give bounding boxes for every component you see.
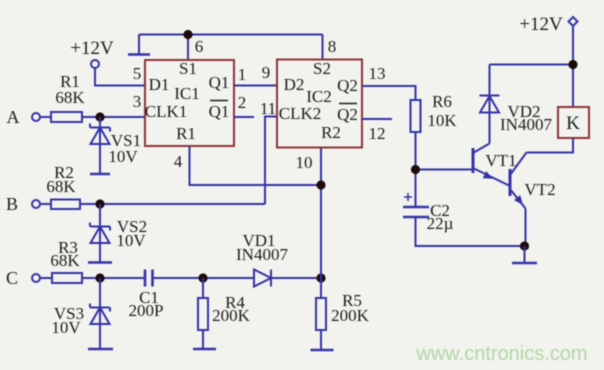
- svg-text:6: 6: [195, 37, 204, 56]
- svg-text:D1: D1: [149, 75, 170, 94]
- svg-text:B: B: [6, 194, 18, 214]
- IC U2 (IC2): [277, 59, 362, 148]
- svg-text:VT1: VT1: [485, 151, 516, 170]
- wire K bottom to VT2 collector: [527, 138, 574, 153]
- svg-text:200K: 200K: [331, 306, 370, 325]
- svg-text:10V: 10V: [116, 231, 146, 250]
- node VD1/R5 junction: [316, 273, 325, 282]
- zener VS1: [90, 117, 141, 174]
- wire R1 pin4 to R2 pin10: [190, 146, 322, 185]
- node +12V rail junction: [568, 60, 577, 69]
- ground (VS2): [88, 261, 112, 264]
- input terminal C: [6, 268, 40, 288]
- wire row C: [40, 277, 321, 279]
- svg-text:2: 2: [238, 93, 247, 112]
- svg-text:11: 11: [260, 99, 276, 118]
- wire +12V right rail: [490, 26, 574, 107]
- svg-text:R6: R6: [432, 92, 452, 111]
- capacitor C1: [129, 270, 164, 321]
- wire Q2 pin13 to R6: [362, 86, 416, 100]
- svg-text:IC1: IC1: [174, 84, 200, 103]
- IC U1 (IC1): [145, 59, 234, 146]
- node B junction: [95, 199, 104, 208]
- svg-text:10: 10: [296, 153, 313, 172]
- svg-text:C: C: [6, 268, 18, 288]
- node R6/C2/base junction: [411, 165, 420, 174]
- svg-text:3: 3: [133, 92, 142, 111]
- power +12V (left): [70, 38, 114, 68]
- svg-text:D2: D2: [284, 75, 305, 94]
- resistor R4: [198, 278, 251, 349]
- wire C2 bottom to emitter node: [416, 217, 525, 246]
- transistor VT2: [510, 153, 556, 247]
- ground (VT2 emitter): [512, 246, 537, 263]
- svg-text:68K: 68K: [50, 251, 80, 270]
- svg-text:Q2: Q2: [337, 105, 358, 124]
- diode VD1: [236, 231, 288, 287]
- wire row A: [40, 116, 145, 118]
- resistor R5: [316, 278, 370, 350]
- ground (R4): [193, 348, 216, 351]
- svg-text:1: 1: [238, 65, 247, 84]
- ground (VS1): [90, 173, 110, 176]
- resistor R6: [411, 92, 458, 132]
- wire S net top bar: [139, 35, 323, 61]
- zener VS2: [90, 204, 147, 263]
- resistor R2: [46, 163, 80, 209]
- wire Q1bar pin2 stub: [234, 116, 254, 118]
- svg-text:www.cntronics.com: www.cntronics.com: [415, 343, 587, 365]
- ground (R5): [311, 349, 334, 352]
- svg-text:A: A: [7, 107, 20, 127]
- relay K: [558, 107, 589, 138]
- svg-text:10K: 10K: [427, 111, 457, 130]
- svg-text:S2: S2: [313, 59, 331, 78]
- svg-text:K: K: [566, 113, 580, 134]
- node A junction: [95, 112, 104, 121]
- svg-text:CLK1: CLK1: [145, 102, 188, 121]
- svg-text:68K: 68K: [55, 88, 85, 107]
- svg-text:Q2: Q2: [337, 76, 358, 95]
- wire pin10/pin4 to VD1 node: [320, 148, 322, 279]
- wire Q2bar pin12 stub: [362, 118, 392, 120]
- svg-text:IN4007: IN4007: [236, 245, 288, 264]
- svg-text:IN4007: IN4007: [500, 115, 552, 134]
- svg-text:R2: R2: [321, 123, 341, 142]
- node pin4/pin10 junction: [316, 180, 325, 189]
- capacitor C2: [403, 193, 454, 233]
- input terminal A: [7, 107, 41, 127]
- zener VS3: [51, 278, 110, 349]
- wire row B to CLK2 pin 11: [40, 117, 277, 205]
- power +12V (right): [519, 14, 577, 35]
- svg-text:5: 5: [133, 64, 142, 83]
- svg-text:CLK2: CLK2: [279, 104, 322, 123]
- node S junction: [183, 30, 192, 39]
- svg-text:4: 4: [174, 152, 183, 171]
- svg-text:12: 12: [369, 124, 386, 143]
- svg-text:9: 9: [262, 63, 271, 82]
- input terminal B: [6, 194, 40, 214]
- node emitter/C2/ground junction: [520, 241, 529, 250]
- ground (S net, top left): [128, 53, 150, 56]
- svg-text:Q1: Q1: [209, 73, 230, 92]
- svg-text:22µ: 22µ: [427, 214, 454, 233]
- svg-text:68K: 68K: [46, 177, 76, 196]
- ground (VS3): [88, 348, 113, 351]
- resistor R3: [50, 238, 82, 283]
- svg-text:10V: 10V: [51, 318, 81, 337]
- node C1/R4 junction: [198, 273, 207, 282]
- svg-text:R1: R1: [176, 124, 196, 143]
- wire Q1 pin1 to D2 pin9: [234, 85, 277, 87]
- svg-text:8: 8: [328, 37, 337, 56]
- wire R6 to C2 and VT1 base: [416, 132, 474, 207]
- svg-text:VT2: VT2: [524, 180, 555, 199]
- svg-text:10V: 10V: [108, 147, 138, 166]
- node C junction: [95, 273, 104, 282]
- wire +12V to D1 pin 5: [95, 68, 145, 86]
- svg-text:13: 13: [369, 64, 386, 83]
- svg-text:+12V: +12V: [519, 14, 563, 35]
- svg-text:200P: 200P: [129, 301, 164, 320]
- transistor VT1: [473, 144, 517, 187]
- svg-text:200K: 200K: [212, 306, 251, 325]
- svg-text:+12V: +12V: [70, 38, 114, 59]
- resistor R1: [51, 72, 85, 122]
- svg-text:Q1: Q1: [209, 102, 230, 121]
- svg-text:S1: S1: [179, 59, 197, 78]
- diode VD2: [480, 65, 553, 144]
